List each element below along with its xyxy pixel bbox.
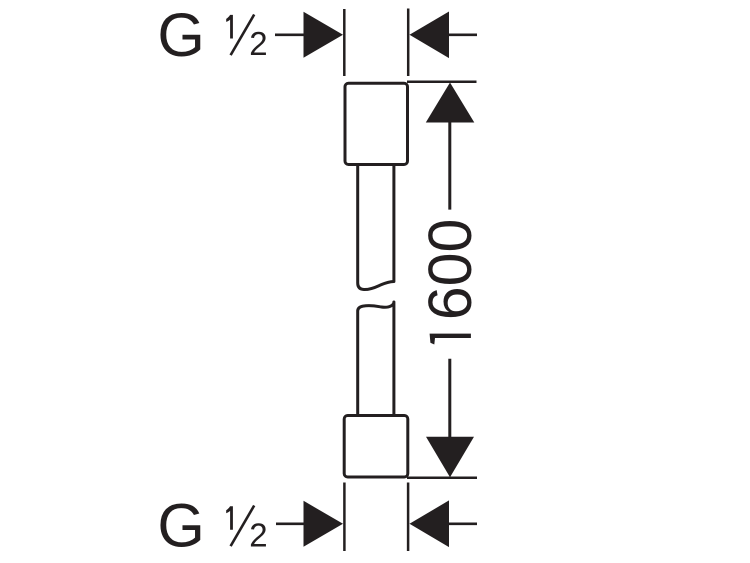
svg-text:600: 600 bbox=[416, 219, 484, 321]
fraction 1/2 (top): slash bbox=[231, 15, 255, 56]
svg-text:G: G bbox=[157, 1, 204, 69]
svg-text:G: G bbox=[157, 492, 204, 560]
top hose connector nut bbox=[345, 83, 408, 164]
top width dimension: right-pointing arrowhead bbox=[304, 12, 344, 58]
hose upper segment with break wave bbox=[358, 164, 394, 290]
1600 length dimension: up arrowhead bbox=[426, 83, 475, 123]
extension line for 1600 dimension (bottom horizontal) bbox=[407, 477, 477, 480]
fraction 1/2 (top): numerator 1 bbox=[226, 15, 233, 39]
extension line top-left bbox=[343, 9, 346, 76]
bottom hose connector nut bbox=[344, 416, 408, 478]
bottom width dimension: left-pointing arrowhead bbox=[410, 500, 450, 547]
1600 length dimension: upper line segment bbox=[448, 121, 451, 210]
svg-text:2: 2 bbox=[249, 516, 267, 553]
fraction 1/2 (bottom): slash bbox=[231, 506, 255, 547]
top width dimension: leader line left bbox=[275, 33, 305, 36]
top width dimension: left-pointing arrowhead bbox=[410, 12, 450, 59]
hose lower segment with break wave bbox=[358, 302, 394, 417]
1600 length dimension: down arrowhead bbox=[426, 437, 474, 478]
fraction 1/2 (bottom): numerator 1 bbox=[226, 506, 233, 530]
extension line top-right bbox=[407, 9, 410, 77]
extension line bottom-right bbox=[407, 483, 410, 552]
bottom width dimension: right-pointing arrowhead bbox=[304, 501, 344, 547]
1600 length dimension: lower line segment bbox=[448, 359, 451, 438]
top width dimension: leader line right bbox=[448, 33, 477, 36]
bottom width dimension: leader line left bbox=[276, 522, 305, 525]
extension line for 1600 dimension (top horizontal) bbox=[407, 80, 477, 83]
bottom width dimension: leader line right bbox=[448, 522, 477, 525]
svg-text:2: 2 bbox=[249, 25, 267, 62]
1600 length dimension: value text (rotated) bbox=[416, 219, 484, 345]
extension line bottom-left bbox=[343, 483, 346, 552]
